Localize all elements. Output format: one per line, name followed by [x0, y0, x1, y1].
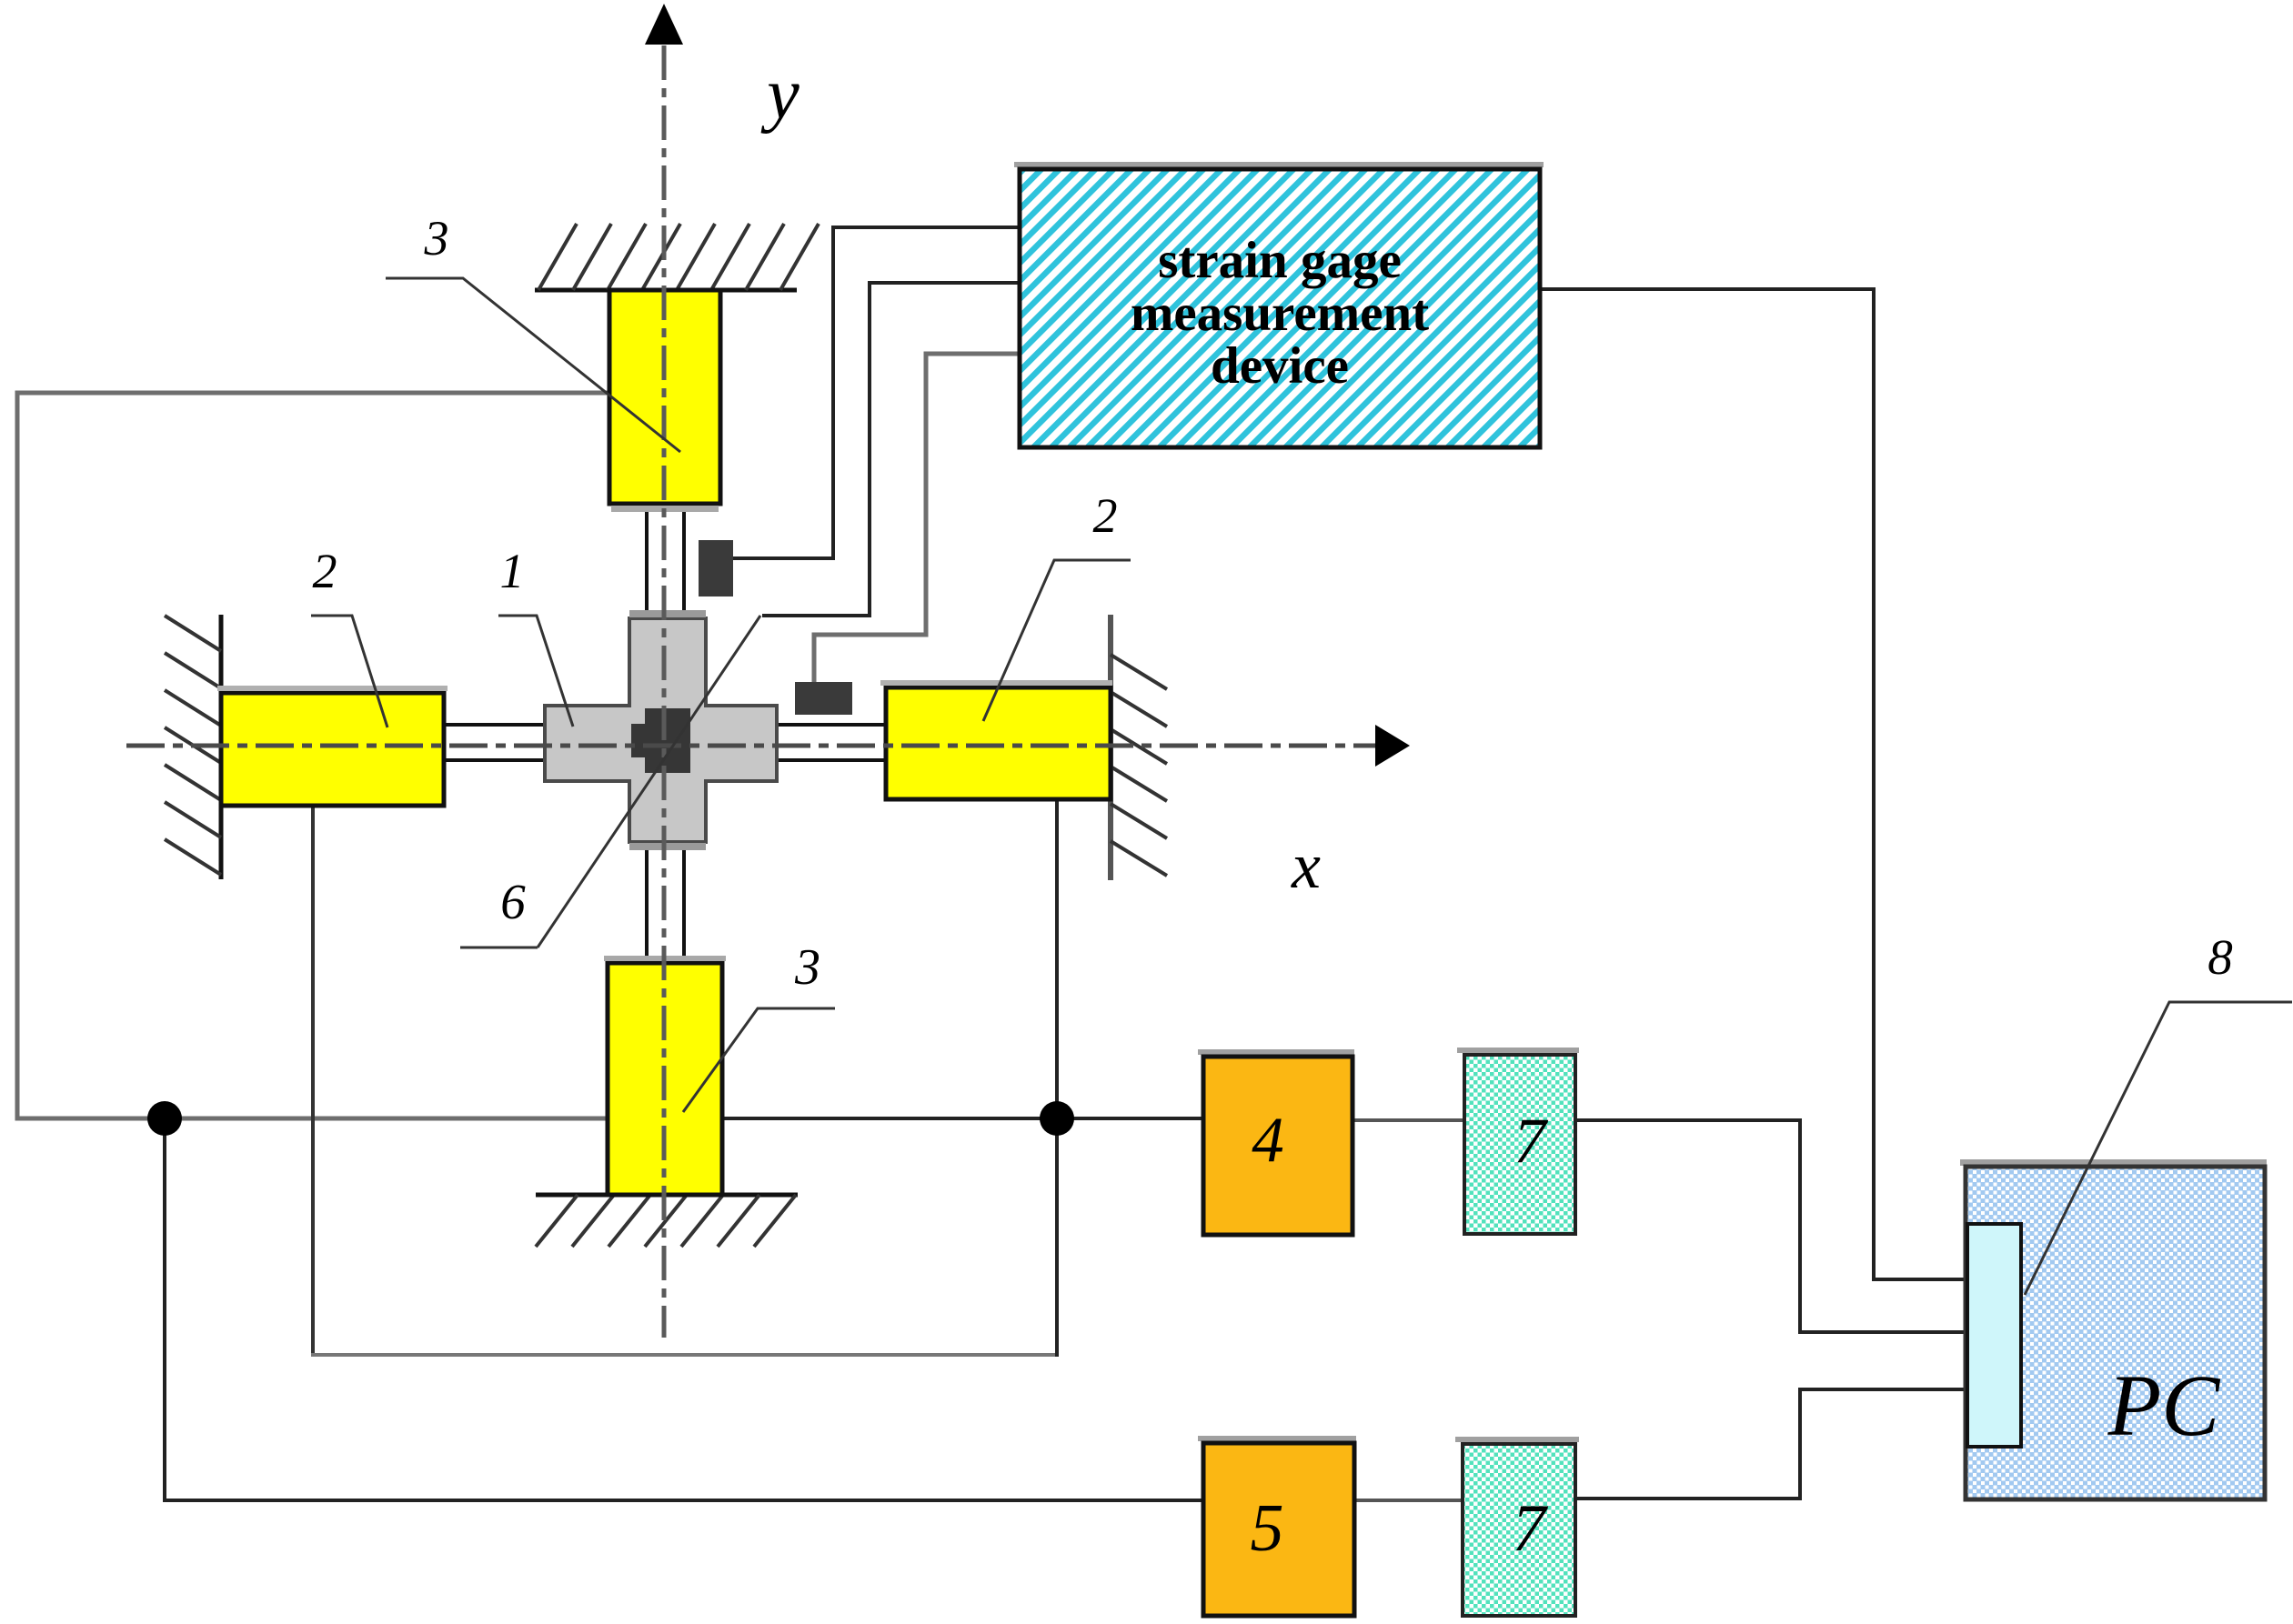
leader label 2 left	[311, 616, 387, 727]
wire amplifier 4 to filter 7	[1353, 1118, 1464, 1122]
cross specimen 1	[545, 618, 777, 842]
svg-text:3: 3	[794, 939, 820, 996]
wire bus bottom segment to controller 4	[722, 1117, 1203, 1120]
svg-text:PC: PC	[2107, 1357, 2221, 1454]
svg-text:5: 5	[1251, 1491, 1284, 1566]
wire strain gage device output to PC	[1540, 289, 1967, 1279]
piezo actuator 3 bottom	[608, 963, 722, 1195]
svg-text:7: 7	[1513, 1491, 1549, 1566]
piezo actuator 3 top	[609, 290, 720, 504]
rod right	[777, 725, 886, 760]
wire filter 7 top to PC port	[1575, 1120, 1967, 1332]
rod top	[647, 504, 684, 618]
rod bottom	[647, 842, 684, 963]
shadow above right actuator	[880, 680, 1112, 686]
leader label 6 (through force sensor)	[460, 616, 760, 947]
force sensor 6 (black center)	[645, 708, 690, 773]
shadow above strain gage box	[1014, 162, 1544, 167]
amplifier 5	[1203, 1443, 1354, 1616]
wire right actuator drop	[1055, 799, 1059, 1357]
ceiling hatch	[538, 224, 819, 290]
wire strain gage device input 2 to force sensor 6	[762, 283, 1020, 616]
strain sensor on right rod	[795, 682, 852, 715]
strain sensor on top rod	[699, 540, 733, 596]
left wall line	[219, 615, 224, 879]
actuator 2 left	[221, 693, 444, 806]
wire sensor to strain gage device input 1	[733, 227, 1020, 558]
svg-text:2: 2	[313, 544, 337, 598]
svg-text:3: 3	[424, 211, 449, 266]
x axis arrow	[1375, 725, 1410, 767]
svg-text:1: 1	[500, 544, 525, 598]
shadow above amplifier 5	[1198, 1436, 1356, 1441]
filter 7 bottom	[1463, 1444, 1575, 1616]
shadow above left actuator	[217, 686, 448, 691]
svg-text:x: x	[1291, 829, 1321, 902]
leader label 3 top	[386, 278, 680, 452]
shadow above filter 7 top	[1457, 1048, 1579, 1053]
leader label 3 bottom	[683, 1008, 835, 1112]
wire strain gage device input 3 to sensor 2	[814, 354, 1020, 684]
gray cap above bottom actuator	[604, 956, 726, 961]
gray cap top of cross	[629, 610, 706, 617]
svg-text:measurement: measurement	[1131, 285, 1429, 342]
svg-text:strain gage: strain gage	[1158, 232, 1402, 289]
svg-text:6: 6	[500, 874, 526, 929]
shadow above filter 7 bottom	[1455, 1437, 1579, 1442]
leader label 2 right	[983, 560, 1131, 721]
svg-text:4: 4	[1252, 1105, 1284, 1176]
wire from top actuator 3 to left bus	[17, 393, 608, 1118]
leader label 1	[498, 616, 573, 727]
PC 8	[1966, 1167, 2265, 1499]
wire horizontal segment of loop	[311, 1353, 1057, 1357]
shadow above amplifier 4	[1198, 1049, 1354, 1055]
floor wall line	[536, 1193, 798, 1198]
PC interface port	[1967, 1224, 2021, 1447]
wire amplifier 5 to filter 7 bottom	[1354, 1499, 1463, 1502]
svg-text:2: 2	[1093, 488, 1118, 543]
wire left junction to amplifier 5	[165, 1118, 1203, 1500]
strain gage measurement device	[1020, 169, 1540, 447]
filter 7 top	[1464, 1055, 1575, 1234]
svg-text:7: 7	[1514, 1106, 1548, 1177]
floor hatch	[536, 1195, 796, 1247]
actuator 2 right	[886, 687, 1111, 799]
wire filter 7 bottom to PC port	[1575, 1389, 1967, 1499]
svg-text:y: y	[760, 55, 800, 135]
svg-text:device: device	[1211, 337, 1349, 395]
right wall hatch	[1111, 655, 1167, 876]
svg-text:8: 8	[2208, 929, 2233, 985]
wire loop actuator 2 left to actuator 2 right	[311, 806, 315, 1353]
rod left	[444, 725, 545, 760]
gray cap under top actuator	[611, 506, 719, 512]
y axis dash-dot	[662, 45, 667, 1338]
junction left	[147, 1101, 182, 1136]
x axis dash-dot	[126, 744, 1375, 748]
amplifier 4	[1203, 1057, 1353, 1235]
junction right	[1040, 1101, 1074, 1136]
y axis arrow	[645, 4, 683, 45]
gray cap bottom of cross	[629, 843, 706, 850]
leader label 8	[2025, 1002, 2292, 1295]
shadow above PC	[1960, 1159, 2267, 1166]
right wall line	[1108, 615, 1113, 880]
left wall hatch	[165, 616, 221, 875]
ceiling wall line	[535, 288, 797, 293]
